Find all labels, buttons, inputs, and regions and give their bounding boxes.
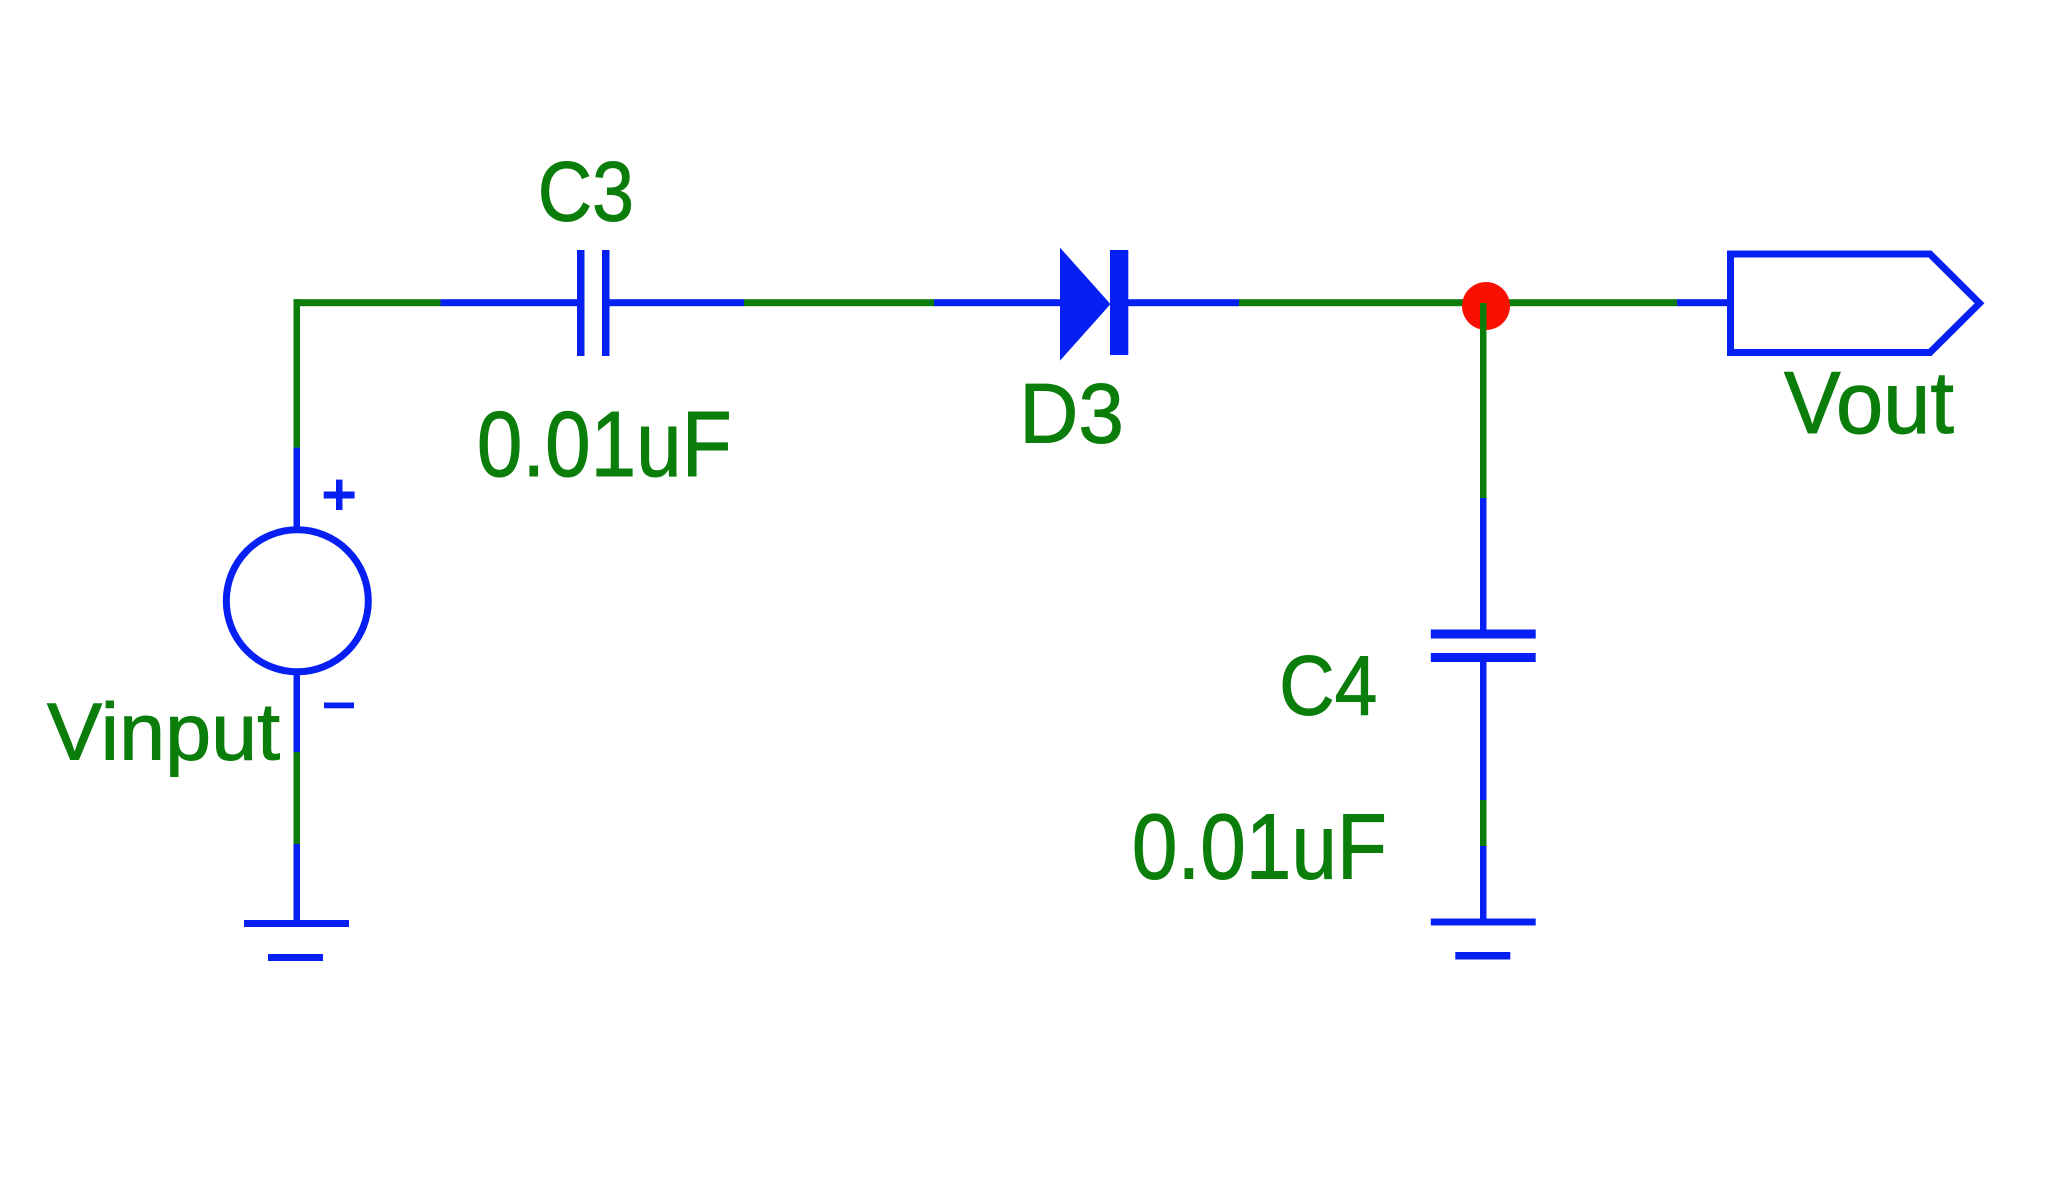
svg-text:Vinput: Vinput bbox=[47, 688, 280, 778]
svg-text:0.01uF: 0.01uF bbox=[1132, 795, 1387, 899]
svg-text:D3: D3 bbox=[1019, 367, 1124, 461]
svg-text:C4: C4 bbox=[1279, 639, 1377, 733]
svg-text:C3: C3 bbox=[538, 145, 634, 239]
svg-text:0.01uF: 0.01uF bbox=[477, 392, 732, 496]
svg-text:Vout: Vout bbox=[1784, 353, 1954, 452]
